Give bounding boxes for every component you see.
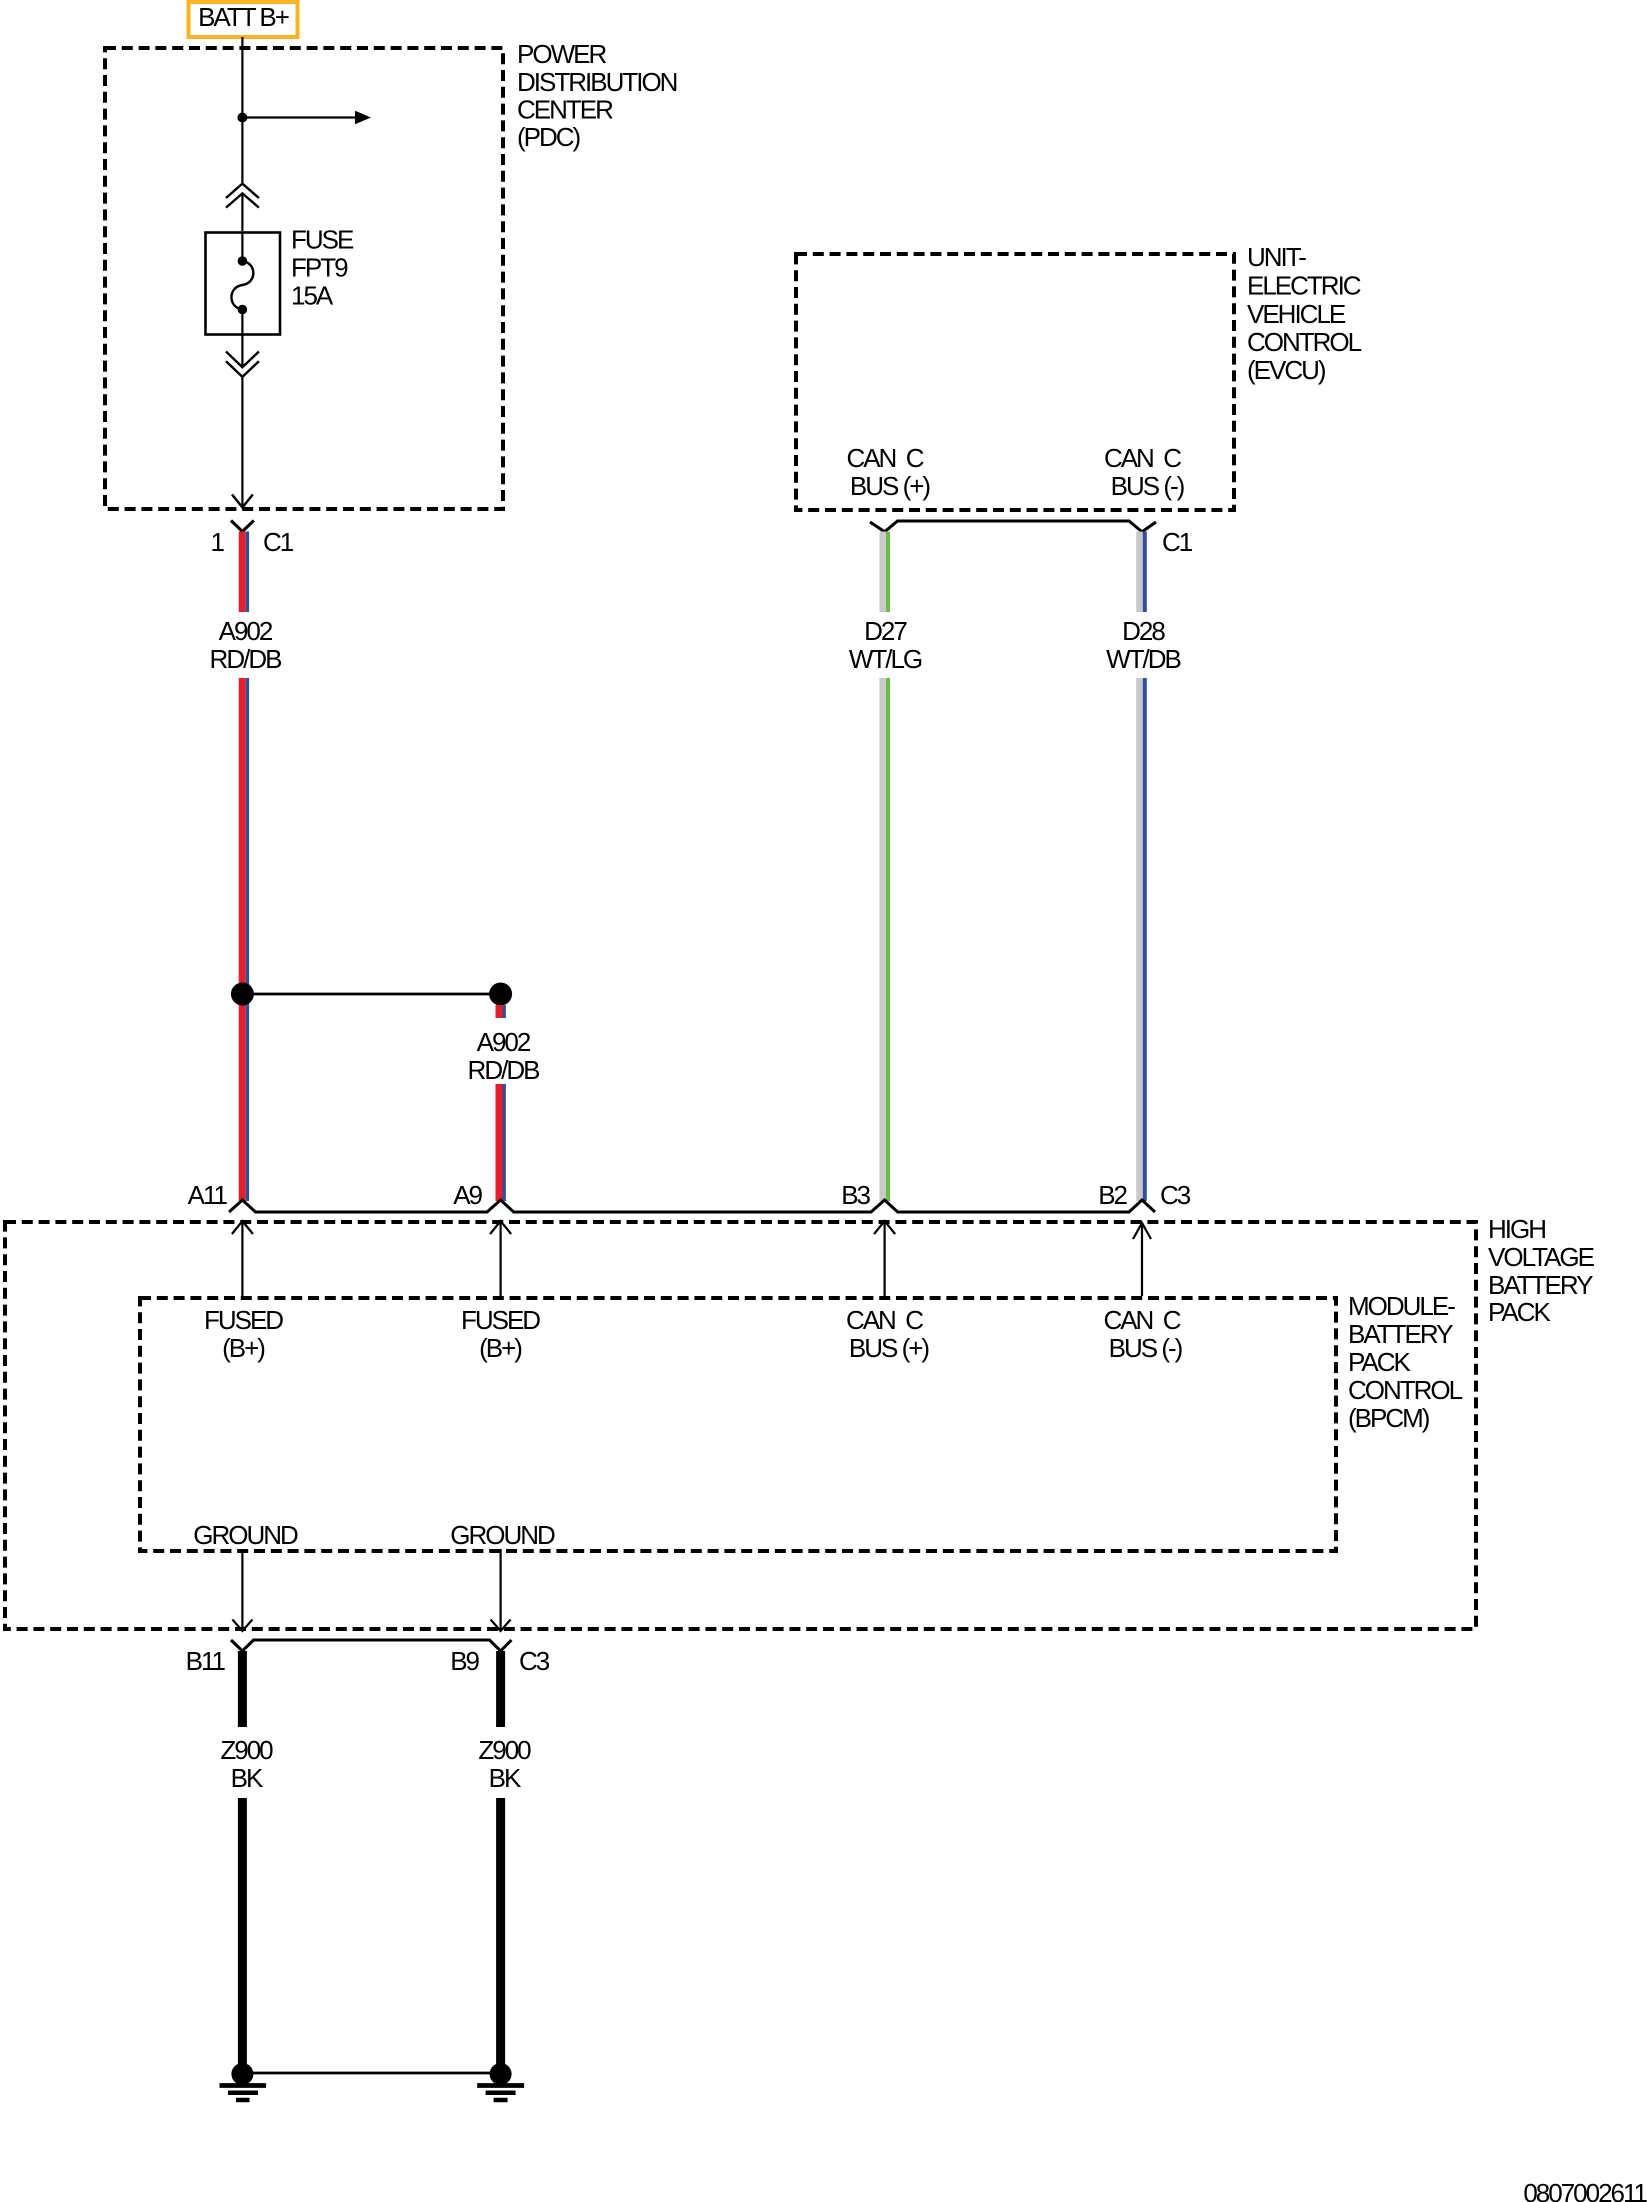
- svg-text:(B+): (B+): [222, 1333, 265, 1363]
- svg-text:DISTRIBUTION: DISTRIBUTION: [517, 67, 677, 97]
- svg-text:RD/DB: RD/DB: [468, 1055, 540, 1085]
- svg-text:1: 1: [211, 527, 225, 557]
- svg-text:C1: C1: [1162, 527, 1193, 557]
- wire arrow into BPCM pin B2: [1133, 1223, 1151, 1296]
- svg-text:MODULE-: MODULE-: [1348, 1291, 1455, 1321]
- label Z900 BK col1: [220, 1735, 273, 1793]
- arrowhead at PDC exit: [232, 495, 253, 508]
- svg-text:PACK: PACK: [1348, 1347, 1412, 1377]
- svg-text:CONTROL: CONTROL: [1247, 327, 1362, 357]
- label BPCM: [1348, 1291, 1463, 1433]
- svg-text:A902: A902: [219, 616, 273, 646]
- label Z900 BK col2: [478, 1735, 531, 1793]
- svg-text:BUS (+): BUS (+): [849, 1333, 930, 1363]
- splice dot left: [231, 983, 254, 1006]
- label CAN C BUS (-) EVCU: [1104, 443, 1185, 501]
- ground G2: [477, 2063, 524, 2100]
- label A902 RD/DB col2: [468, 1027, 540, 1085]
- svg-text:VEHICLE: VEHICLE: [1247, 299, 1346, 329]
- wire A902 RD/DB col2 lower: [499, 1084, 504, 1201]
- label CAN C BUS (+) EVCU: [846, 443, 930, 501]
- svg-text:0807002611: 0807002611: [1523, 2178, 1647, 2202]
- connector chevron (in-line, down): [226, 352, 259, 377]
- wire D28 WT/DB upper: [1140, 532, 1145, 613]
- svg-text:CAN C: CAN C: [846, 443, 923, 473]
- box HIGH VOLTAGE BATTERY PACK: [5, 1222, 1476, 1629]
- svg-text:BK: BK: [231, 1763, 264, 1793]
- svg-text:FUSE: FUSE: [291, 225, 354, 255]
- wire Z900 BK col2 upper: [496, 1651, 505, 1727]
- svg-text:BATTERY: BATTERY: [1488, 1270, 1593, 1300]
- svg-text:CAN C: CAN C: [846, 1305, 923, 1335]
- label FUSE FPT9 15A: [291, 225, 354, 311]
- wire arrow into BPCM pin A9: [490, 1221, 511, 1296]
- connector EVCU C1: [870, 521, 1156, 532]
- svg-text:B11: B11: [186, 1646, 226, 1676]
- svg-text:CONTROL: CONTROL: [1348, 1375, 1463, 1405]
- svg-text:VOLTAGE: VOLTAGE: [1488, 1242, 1595, 1272]
- svg-text:PACK: PACK: [1488, 1297, 1552, 1327]
- ground G1: [220, 2063, 267, 2100]
- svg-text:HIGH: HIGH: [1488, 1214, 1545, 1244]
- wire D27 WT/LG lower: [883, 678, 888, 1201]
- label D28 WT/DB: [1106, 616, 1180, 674]
- wire fuse to PDC edge: [241, 335, 243, 367]
- svg-text:15A: 15A: [291, 281, 334, 311]
- splice dot right: [489, 983, 512, 1006]
- svg-text:D27: D27: [864, 616, 907, 646]
- svg-text:BUS (-): BUS (-): [1111, 471, 1185, 501]
- wire Z900 BK col1 upper: [238, 1651, 247, 1727]
- wire A902 RD/DB col1 upper: [242, 532, 247, 613]
- svg-text:WT/LG: WT/LG: [849, 644, 922, 674]
- svg-text:BUS (+): BUS (+): [850, 471, 931, 501]
- svg-text:B2: B2: [1098, 1180, 1127, 1210]
- box BPCM (BATTERY PACK CONTROL MODULE): [140, 1298, 1336, 1551]
- svg-text:B3: B3: [841, 1180, 870, 1210]
- label HIGH VOLTAGE BATTERY PACK: [1488, 1214, 1595, 1327]
- svg-text:FPT9: FPT9: [291, 253, 348, 283]
- svg-text:(EVCU): (EVCU): [1247, 355, 1326, 385]
- svg-text:A9: A9: [453, 1180, 482, 1210]
- wire arrow into BPCM pin B3: [874, 1221, 895, 1296]
- node BATT B+: [189, 2, 298, 37]
- label CAN C BUS (-) BPCM: [1103, 1305, 1182, 1363]
- svg-text:UNIT-: UNIT-: [1247, 242, 1306, 272]
- svg-text:CAN C: CAN C: [1104, 443, 1181, 473]
- wire branch arrow right: [242, 111, 371, 124]
- label FUSED (B+) col2: [461, 1305, 540, 1363]
- label D27 WT/LG: [849, 616, 922, 674]
- wire Z900 BK col1 lower: [238, 1798, 247, 2068]
- wire BATT B+ to fuse: [241, 37, 243, 184]
- svg-text:BATT B+: BATT B+: [198, 2, 289, 32]
- wire A902 RD/DB col2 stub: [499, 1005, 504, 1018]
- svg-text:CAN C: CAN C: [1103, 1305, 1180, 1335]
- svg-text:BK: BK: [489, 1763, 522, 1793]
- box PDC (POWER DISTRIBUTION CENTER): [105, 48, 503, 509]
- svg-text:FUSED: FUSED: [461, 1305, 540, 1335]
- label PDC: [517, 39, 677, 152]
- svg-text:A902: A902: [477, 1027, 531, 1057]
- svg-text:CENTER: CENTER: [517, 95, 613, 125]
- label A902 RD/DB col1: [210, 616, 282, 674]
- svg-text:C3: C3: [1160, 1180, 1191, 1210]
- label FUSED (B+) col1: [204, 1305, 283, 1363]
- svg-text:D28: D28: [1122, 616, 1165, 646]
- svg-text:WT/DB: WT/DB: [1106, 644, 1180, 674]
- svg-text:BUS (-): BUS (-): [1109, 1333, 1183, 1363]
- wire splice bridge: [242, 993, 500, 996]
- label EVCU: [1247, 242, 1362, 385]
- svg-text:Z900: Z900: [478, 1735, 531, 1765]
- svg-text:(BPCM): (BPCM): [1348, 1403, 1430, 1433]
- svg-text:ELECTRIC: ELECTRIC: [1247, 271, 1361, 301]
- svg-text:(PDC): (PDC): [517, 122, 581, 152]
- svg-text:BATTERY: BATTERY: [1348, 1319, 1453, 1349]
- svg-text:FUSED: FUSED: [204, 1305, 283, 1335]
- svg-text:C1: C1: [263, 527, 294, 557]
- fuse FPT9 15A: [206, 232, 281, 335]
- svg-text:GROUND: GROUND: [193, 1520, 298, 1550]
- label CAN C BUS (+) BPCM: [846, 1305, 929, 1363]
- wire Z900 BK col2 lower: [496, 1798, 505, 2068]
- wire D28 WT/DB lower: [1140, 678, 1145, 1201]
- wire ground bridge: [242, 2072, 500, 2075]
- wire A902 RD/DB col1 lower: [242, 678, 247, 1201]
- node junction dot: [237, 113, 247, 123]
- wire ground arrow col1: [232, 1549, 252, 1631]
- svg-text:C3: C3: [519, 1646, 550, 1676]
- box EVCU (ELECTRIC VEHICLE CONTROL UNIT): [796, 254, 1234, 510]
- svg-text:Z900: Z900: [220, 1735, 273, 1765]
- connector C1 pin 1: [231, 521, 254, 532]
- svg-text:RD/DB: RD/DB: [210, 644, 282, 674]
- wire ground arrow col2: [491, 1549, 511, 1631]
- svg-text:B9: B9: [450, 1646, 479, 1676]
- svg-text:(B+): (B+): [479, 1333, 522, 1363]
- wire D27 WT/LG upper: [883, 532, 888, 613]
- svg-text:POWER: POWER: [517, 39, 606, 69]
- svg-text:GROUND: GROUND: [450, 1520, 555, 1550]
- wire arrow into BPCM pin A11: [232, 1221, 253, 1296]
- connector C3 row (battery pack): [229, 1200, 1155, 1212]
- connector chevron (in-line, up): [226, 184, 259, 208]
- svg-text:A11: A11: [188, 1180, 228, 1210]
- connector C3 row (B11/B9): [231, 1640, 512, 1651]
